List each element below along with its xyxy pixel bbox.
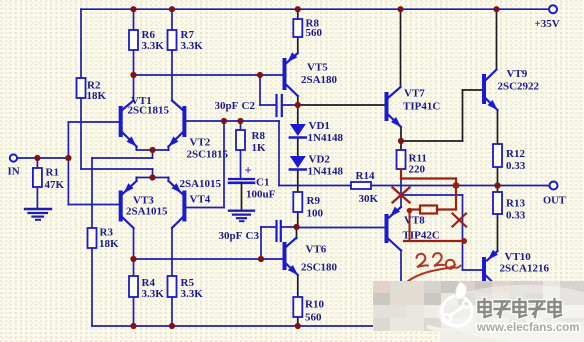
wire VT9 base riser bbox=[462, 90, 464, 141]
wire VT6 collector stub bbox=[296, 227, 298, 239]
wire VT2 base / feedback node (y=121) bbox=[187, 120, 279, 122]
wire R5 to bottom rail bbox=[171, 297, 173, 326]
node bias top (VT5 collector/VD1/VT7 base) bbox=[295, 102, 301, 108]
resistor R2 18K bbox=[77, 78, 86, 98]
red annotation: vertical left of VT8 bbox=[409, 210, 411, 242]
wire R12 to output rail bbox=[497, 167, 499, 186]
svg-text:560: 560 bbox=[305, 312, 322, 324]
svg-text:18K: 18K bbox=[99, 238, 119, 250]
svg-text:220: 220 bbox=[409, 164, 426, 176]
node C3 tap bbox=[258, 256, 264, 262]
wire R7 to VT2 collector bbox=[171, 50, 173, 100]
red annotation: junction dot left of added resistor bbox=[407, 208, 413, 214]
svg-text:R1: R1 bbox=[46, 167, 59, 179]
svg-text:560: 560 bbox=[306, 27, 323, 39]
ground (C1) bbox=[229, 209, 254, 211]
svg-text:TIP41C: TIP41C bbox=[403, 101, 440, 113]
wire input node vertical bbox=[67, 122, 69, 205]
svg-text:R14: R14 bbox=[356, 170, 375, 182]
wire VT10 base riser bbox=[462, 195, 464, 270]
transistor VT6 2SC180 bbox=[283, 242, 287, 270]
diode VD1 1N4148 bbox=[290, 124, 306, 136]
svg-text:100uF: 100uF bbox=[246, 189, 276, 201]
censor mosaic blur patch bbox=[373, 281, 584, 342]
wire VT9 emitter to R12 bbox=[497, 110, 499, 144]
wire R8b to C1 bbox=[240, 150, 242, 179]
svg-text:1N4148: 1N4148 bbox=[308, 166, 344, 178]
transistor VT2 2SC1815 bbox=[182, 106, 186, 137]
wire VT9 base bbox=[463, 89, 483, 91]
watermark chinese text dian zi fa shao you (mock strokes) bbox=[479, 299, 562, 317]
wire R10 to bottom rail bbox=[297, 317, 299, 326]
transistor VT7 TIP41C bbox=[385, 92, 389, 121]
svg-text:VT7: VT7 bbox=[404, 88, 425, 100]
svg-text:R9: R9 bbox=[307, 195, 321, 207]
node bottom rail R4 bbox=[130, 323, 136, 329]
svg-text:3.3K: 3.3K bbox=[142, 40, 165, 52]
wire VT10 base bbox=[463, 269, 483, 271]
ground (input) bbox=[25, 208, 51, 210]
wire C2 right lead bbox=[283, 104, 298, 106]
wire bias node to VD1 bbox=[297, 105, 299, 124]
wire R6 to VT1 collector bbox=[133, 50, 135, 100]
node PNP emitters bbox=[149, 174, 155, 180]
capacitor C3 30pF bbox=[275, 221, 277, 241]
resistor R4 3.3K bbox=[129, 276, 138, 297]
svg-text:3.3K: 3.3K bbox=[181, 40, 204, 52]
wire R1 stub bbox=[36, 158, 38, 168]
red annotation: jumper from R11 bottom bbox=[400, 169, 402, 179]
resistor R10 560 bbox=[293, 297, 302, 317]
svg-text:VD2: VD2 bbox=[309, 154, 331, 166]
svg-text:R10: R10 bbox=[305, 299, 324, 311]
node VT1 collector / VT5 base bbox=[130, 72, 136, 78]
svg-text:2SA1015: 2SA1015 bbox=[126, 206, 168, 218]
node rail junction VT9 collector bbox=[493, 6, 499, 12]
wire VT4 base riser bbox=[223, 121, 225, 208]
node input to bases bbox=[65, 155, 71, 161]
svg-text:30pF: 30pF bbox=[219, 230, 243, 242]
wire feedback node down to output rail bbox=[278, 121, 280, 186]
resistor R6 3.3K bbox=[129, 30, 138, 50]
svg-text:30pF: 30pF bbox=[215, 100, 239, 112]
wire output rail right of R14 bbox=[371, 185, 549, 187]
capacitor C2 30pF bbox=[275, 95, 277, 116]
svg-text:VT8: VT8 bbox=[404, 215, 425, 227]
node output (R12/R13/OUT) bbox=[494, 182, 500, 188]
red annotation: strike-through TIP42C to VT10 base bbox=[404, 240, 464, 242]
node rail junction R7 bbox=[169, 6, 175, 12]
wire VT9 collector to rail bbox=[496, 9, 498, 68]
svg-text:OUT: OUT bbox=[543, 196, 566, 207]
wire R11 top stub bbox=[400, 141, 402, 150]
wire VD1 to VD2 bbox=[297, 139, 299, 157]
resistor R11 220 bbox=[397, 150, 406, 169]
svg-text:100: 100 bbox=[307, 208, 324, 220]
diode VD2 1N4148 bbox=[290, 156, 306, 168]
wire R4 to bottom rail bbox=[133, 297, 135, 326]
svg-text:www.elecfans.com: www.elecfans.com bbox=[476, 322, 579, 334]
resistor R5 3.3K bbox=[168, 276, 177, 297]
node rail junction R8a bbox=[295, 6, 301, 12]
resistor R3 18K bbox=[88, 228, 97, 248]
transistor VT3 2SA1015 bbox=[119, 191, 123, 222]
node NPN emitters bbox=[149, 147, 155, 153]
wire node B to VT10 base riser (y=195) bbox=[401, 194, 463, 196]
wire VT6 base (y=259) bbox=[134, 258, 284, 260]
wire node A to VT9 base riser (y=141) bbox=[401, 140, 463, 142]
transistor VT10 2SCA1216 bbox=[482, 257, 486, 281]
wire R6 top stub bbox=[133, 9, 135, 30]
node VT4 base tap bbox=[221, 118, 227, 124]
wire VT1 base bbox=[68, 121, 119, 123]
node bias bottom (R9/VT6 collector/VT8 base) bbox=[293, 224, 299, 230]
wire VD2 to R9 bbox=[297, 170, 299, 193]
watermark globe logo bbox=[429, 282, 472, 330]
wire R8b top stub bbox=[240, 121, 242, 130]
node A VT7 emitter / R11 / VT9 base bbox=[398, 138, 404, 144]
node R8b feedback tap bbox=[237, 118, 243, 124]
node rail junction R6 bbox=[130, 6, 136, 12]
wire VT5 collector to bias node bbox=[297, 96, 299, 105]
wire C3 right lead bbox=[282, 226, 297, 228]
transistor VT8 TIP42C bbox=[385, 214, 389, 243]
transistor VT1 2SC1815 bbox=[119, 106, 123, 137]
red annotation: handwritten 220 bbox=[408, 253, 461, 281]
svg-text:IN: IN bbox=[8, 166, 20, 178]
svg-text:30K: 30K bbox=[359, 193, 379, 205]
wire VT7 collector to rail bbox=[400, 9, 402, 87]
wire +35V top rail bbox=[81, 8, 549, 10]
svg-text:VT5: VT5 bbox=[307, 62, 328, 74]
svg-text:2SCA1216: 2SCA1216 bbox=[500, 263, 550, 275]
wire R13 to VT10 emitter bbox=[497, 214, 499, 251]
transistor VT4 2SA1015 bbox=[182, 191, 186, 222]
svg-text:R3: R3 bbox=[100, 227, 114, 239]
red annotation: junction dot on output rail bbox=[453, 182, 460, 189]
wire VT6 emitter to R10 bbox=[297, 276, 299, 297]
svg-text:2SC180: 2SC180 bbox=[301, 262, 338, 274]
resistor R8 1K bbox=[236, 130, 245, 150]
svg-text:2SC1815: 2SC1815 bbox=[187, 149, 229, 161]
svg-text:2SA180: 2SA180 bbox=[301, 74, 338, 86]
terminal OUT bbox=[550, 182, 558, 190]
wire VT3 base bbox=[68, 204, 119, 206]
svg-text:47K: 47K bbox=[45, 179, 65, 191]
resistor R8 560 bbox=[293, 19, 302, 37]
transistor VT9 2SC2922 bbox=[482, 74, 486, 104]
svg-text:+: + bbox=[245, 164, 252, 178]
svg-text:VT9: VT9 bbox=[507, 68, 528, 80]
svg-text:18K: 18K bbox=[87, 90, 107, 102]
svg-text:0.33: 0.33 bbox=[506, 160, 526, 172]
resistor R13 0.33 bbox=[493, 192, 502, 214]
red annotation: added resistor 220 bbox=[420, 206, 437, 214]
watermark white highlight blobs bbox=[437, 285, 584, 342]
svg-text:VT10: VT10 bbox=[505, 251, 532, 263]
node rail junction VT7 collector bbox=[397, 6, 403, 12]
wire VT1 collector to VT5 base (y=75) bbox=[134, 74, 284, 76]
wire VT4 collector to R5 bbox=[171, 229, 173, 277]
wire VT8 collector down bbox=[400, 250, 402, 290]
resistor R14 30K bbox=[351, 182, 371, 189]
svg-text:VT6: VT6 bbox=[306, 244, 327, 256]
capacitor C1 100uF electrolytic bbox=[229, 178, 254, 180]
svg-text:VT4: VT4 bbox=[190, 194, 211, 206]
svg-text:R8: R8 bbox=[252, 130, 266, 142]
wire IN input bbox=[17, 157, 69, 159]
svg-text:2SC1815: 2SC1815 bbox=[128, 105, 170, 117]
wire bottom ground rail bbox=[92, 325, 500, 327]
wire C3 left lead to VT6 base node bbox=[260, 227, 262, 259]
node R1 input bbox=[34, 155, 40, 161]
wire output rail to R13 bbox=[497, 186, 499, 193]
wire R1 to ground bbox=[36, 187, 38, 209]
resistor R12 0.33 bbox=[493, 144, 502, 167]
svg-text:C2: C2 bbox=[242, 100, 256, 112]
wire R8a top stub bbox=[297, 9, 299, 19]
terminal IN bbox=[10, 154, 17, 161]
wire output rail left of R14 bbox=[279, 185, 351, 187]
svg-text:0.33: 0.33 bbox=[506, 210, 526, 222]
wire VT7 base from bias chain bbox=[298, 104, 385, 106]
wire R8a to VT5 emitter bbox=[297, 37, 299, 53]
wire R9 to VT6 collector node bbox=[297, 212, 299, 227]
svg-text:2SA1015: 2SA1015 bbox=[180, 178, 222, 190]
svg-text:R13: R13 bbox=[506, 198, 525, 210]
svg-text:R12: R12 bbox=[506, 148, 525, 160]
red annotation: junction dot at VT10 base riser bbox=[461, 238, 467, 244]
red annotation: vertical to added resistor bbox=[455, 179, 457, 210]
svg-text:2SC2922: 2SC2922 bbox=[498, 81, 540, 93]
node C2 tap bbox=[257, 72, 263, 78]
node VT3 collector / VT6 base bbox=[130, 256, 136, 262]
svg-text:+35V: +35V bbox=[535, 18, 560, 30]
resistor R7 3.3K bbox=[168, 30, 177, 50]
svg-text:VD1: VD1 bbox=[309, 120, 330, 132]
svg-text:VT2: VT2 bbox=[190, 137, 211, 149]
red annotation: X mark over VT8 emitter wire bbox=[393, 188, 410, 203]
wire R3 to bottom rail bbox=[91, 248, 93, 326]
transistor VT5 2SA180 bbox=[283, 58, 287, 90]
wire C2 left lead from VT5 base node bbox=[259, 75, 261, 105]
svg-text:C1: C1 bbox=[256, 177, 269, 189]
wire VT7 emitter to node A bbox=[400, 127, 402, 141]
red annotation: X mark over VT10 base riser bbox=[453, 214, 467, 227]
svg-text:TIP42C: TIP42C bbox=[403, 230, 440, 242]
wire R7 top stub bbox=[171, 9, 173, 30]
svg-text:3.3K: 3.3K bbox=[181, 288, 204, 300]
svg-text:3.3K: 3.3K bbox=[142, 288, 165, 300]
svg-text:1K: 1K bbox=[252, 142, 267, 154]
wire VT3 collector to R4 and VT6 base node bbox=[133, 229, 135, 277]
resistor R1 47K bbox=[33, 168, 42, 187]
svg-text:C3: C3 bbox=[246, 230, 260, 242]
wire VT8 base (y=227.5) bbox=[297, 227, 385, 229]
node bottom rail R5 bbox=[169, 323, 175, 329]
svg-text:1N4148: 1N4148 bbox=[308, 132, 344, 144]
wire R11 bottom to VT8 emitter bbox=[400, 169, 402, 207]
node bottom rail R10 bbox=[295, 323, 301, 329]
wire NPN emitters junction to R3 bbox=[152, 150, 154, 158]
wire VT10 collector to bottom rail bbox=[497, 287, 499, 326]
wire R2 to PNP emitters junction bbox=[80, 9, 82, 78]
resistor R9 100 bbox=[293, 192, 302, 212]
terminal +35V bbox=[549, 5, 557, 13]
